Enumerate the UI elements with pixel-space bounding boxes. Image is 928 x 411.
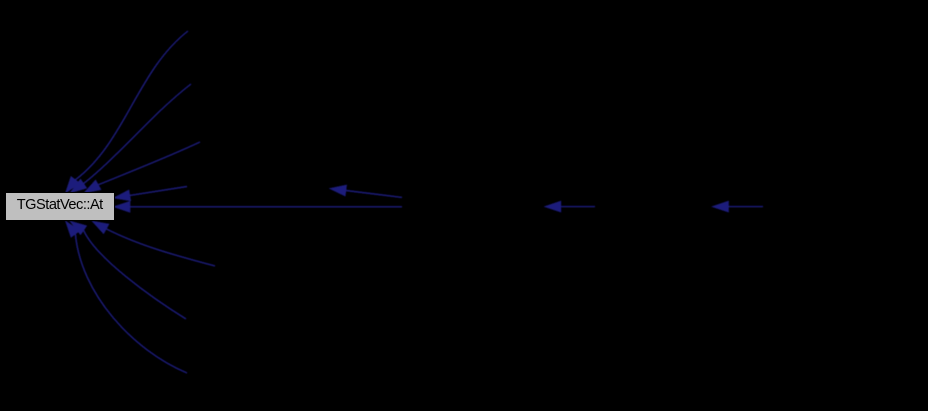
node TGStatVec::At (current function, grey) [5, 192, 115, 221]
edge caller1 -> TGStatVec::At (top curve 1) [66, 31, 189, 193]
edge caller3 -> TGStatVec::At (top curve 3) [84, 142, 200, 193]
edge caller6 -> TGStatVec::At (bottom curve 1) [92, 221, 215, 266]
edge caller4 -> TGStatVec::At (short mid line) [114, 187, 188, 201]
edge node2 -> node1 (diagonal arrow) [330, 185, 403, 197]
edge node3 -> node2 (mid arrow) [544, 201, 595, 212]
edge caller8 -> TGStatVec::At (bottom curve 3) [66, 221, 188, 373]
edge caller5 -> TGStatVec::At (long horizontal) [114, 201, 403, 212]
edge node4 -> node3 (right arrow) [712, 201, 763, 212]
edge caller2 -> TGStatVec::At (top curve 2) [70, 84, 191, 193]
edge caller7 -> TGStatVec::At (bottom curve 2) [70, 221, 186, 319]
